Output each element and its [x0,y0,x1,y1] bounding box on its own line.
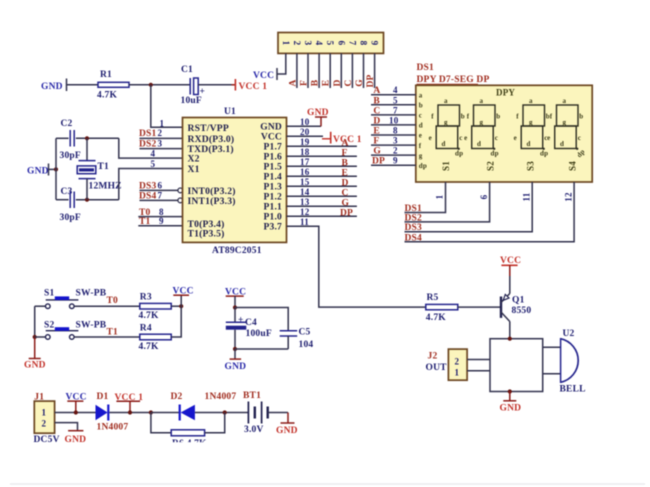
svg-text:4: 4 [314,41,324,46]
svg-text:GND: GND [260,123,282,133]
connector J1 DC5V [34,393,60,445]
svg-text:1: 1 [455,368,460,378]
svg-text:DS2: DS2 [405,213,423,223]
svg-text:F: F [300,80,310,86]
svg-text:d: d [477,140,481,148]
svg-text:2: 2 [393,146,398,156]
display bus row F pin3 [371,136,416,147]
crystal T1 12MHZ [77,138,122,199]
wire J1 pin1 [55,412,96,414]
svg-text:g: g [444,119,448,127]
wire S2 to R4 [74,336,140,338]
svg-text:1N4007: 1N4007 [205,392,237,402]
resistor R3 [139,293,172,322]
wire J2 pin2 to loop [467,359,490,361]
wire D1 to VCC1 node [109,412,150,414]
wire header pin3 net F [300,53,310,88]
svg-text:T1: T1 [98,162,110,172]
svg-text:U1: U1 [224,107,236,117]
svg-text:c: c [419,112,422,120]
wire J2 pin1 to loop [467,370,490,372]
svg-text:DP: DP [340,208,353,218]
svg-text:T1: T1 [107,327,119,337]
svg-text:D: D [333,79,343,86]
wire bell loop rectangle [490,339,543,392]
faint scan artifact at bottom [10,483,645,485]
svg-text:9: 9 [393,156,398,166]
power flag VCC1 (red, top) [232,79,268,92]
power flag VCC (J1) [66,393,87,413]
svg-text:d: d [527,140,531,148]
svg-text:1: 1 [160,118,165,128]
svg-text:VCC: VCC [173,287,194,297]
wire header pin4 net B [311,53,321,88]
ground GND (C4, blue) [225,349,247,372]
node crystal gnd tap [54,167,58,171]
node DS1 net (pin 2) [139,128,183,139]
display bus row G pin2 [371,146,416,157]
svg-text:100uF: 100uF [246,329,272,339]
svg-text:e: e [547,134,550,142]
svg-text:C1: C1 [181,65,193,75]
pin 10 GND [287,108,329,127]
wire header pin8 net G [355,53,365,88]
svg-text:e: e [429,134,432,142]
svg-text:14: 14 [300,187,310,197]
power flag VCC (red, Q1) [500,256,521,276]
svg-text:dp: dp [419,162,427,170]
svg-text:GND: GND [225,362,247,372]
svg-text:G: G [355,79,365,87]
svg-text:4: 4 [393,85,398,95]
svg-text:X1: X1 [188,164,200,175]
svg-text:DPY: DPY [496,88,515,98]
svg-text:9: 9 [370,41,380,46]
ground GND (switches, red) [24,338,46,371]
svg-text:3: 3 [303,41,313,46]
svg-text:DS4: DS4 [405,233,423,243]
svg-text:20: 20 [300,127,310,137]
svg-text:3.0V: 3.0V [244,425,264,435]
power flag VCC1 (bottom, red) [115,393,144,413]
svg-text:3: 3 [158,138,163,148]
display bus row E pin8 [371,126,416,137]
svg-text:Q1: Q1 [512,296,525,306]
svg-text:15: 15 [300,177,310,187]
svg-text:GND: GND [41,82,63,92]
svg-text:1: 1 [435,194,445,199]
wire header pin6 net D [333,53,343,88]
svg-text:D: D [342,178,349,188]
svg-text:a: a [444,97,448,105]
svg-text:SW-PB: SW-PB [76,321,107,331]
svg-text:E: E [322,80,332,87]
wire GND to R1 [67,84,99,86]
svg-text:GND: GND [500,404,522,414]
connector header (9 pin) [278,33,384,54]
power flag VCC (C4) [225,287,246,307]
svg-text:2: 2 [42,418,47,428]
display segment digit 1 [429,97,465,157]
svg-text:U2: U2 [563,329,575,339]
svg-text:S2: S2 [44,321,54,331]
power flag VCC (blue, header) [253,68,277,81]
switch S1 SW-PB [35,289,107,309]
wire header pin2 net A [288,53,298,88]
wire header pin5 net E [322,53,332,88]
capacitor C2 [56,119,119,161]
svg-text:S4: S4 [568,161,578,171]
svg-text:A: A [342,138,349,148]
svg-text:dp: dp [491,149,499,157]
battery BT1 3.0V [243,391,268,435]
svg-text:12: 12 [300,207,310,217]
svg-text:5: 5 [393,95,398,105]
svg-text:8: 8 [359,41,369,46]
svg-text:5: 5 [325,41,335,46]
svg-text:7: 7 [393,105,398,115]
pin 12 net DP [287,207,357,219]
wire header pin9 net DP [366,53,376,88]
node crystal top [85,136,89,140]
svg-text:104: 104 [299,340,314,350]
wire R4 to VCC node [171,306,181,337]
svg-text:5: 5 [151,159,156,169]
ground GND (BT1, red) [276,413,298,436]
svg-text:3: 3 [393,136,398,146]
svg-text:c: c [578,134,581,142]
svg-text:R5: R5 [427,293,439,303]
svg-text:GND: GND [276,426,298,436]
wire to D2 [151,412,180,414]
svg-text:SW-PB: SW-PB [76,289,107,299]
svg-text:c: c [459,134,462,142]
svg-text:12MHZ: 12MHZ [89,182,122,192]
svg-text:30pF: 30pF [60,213,81,223]
node D2 left junction [149,410,153,414]
svg-text:DS1: DS1 [417,63,435,73]
svg-text:a: a [419,91,423,99]
svg-text:13: 13 [300,197,310,207]
svg-text:S3: S3 [526,161,536,171]
pin 19 net A [287,137,357,149]
diode D1 1N4007 [96,392,129,433]
svg-text:G: G [342,198,350,208]
svg-text:d: d [442,140,446,148]
svg-text:e: e [419,132,422,140]
pin 14 net C [287,187,357,199]
wire BT1 to gnd [268,412,288,414]
wire switch left rail [34,306,36,338]
display select stub S2 / net DS2 [405,182,490,223]
pin 18 net F [287,147,357,159]
transistor Q1 8550 (PNP) [501,276,531,339]
svg-text:RST/VPP: RST/VPP [188,123,229,134]
node C4 top junction [233,305,237,309]
svg-text:d: d [560,140,564,148]
svg-text:P3.7: P3.7 [264,223,283,233]
svg-text:8: 8 [393,126,398,136]
svg-text:d: d [419,122,423,130]
svg-text:VCC: VCC [261,133,282,143]
svg-text:J2: J2 [428,352,438,362]
svg-text:e: e [514,134,517,142]
resistor R1 [97,70,129,101]
display bus row D pin10 [371,115,416,126]
svg-text:4.7K: 4.7K [139,311,159,321]
node R3/R4/VCC junction [179,304,183,308]
svg-text:1: 1 [281,41,291,46]
svg-text:X2: X2 [188,154,200,165]
node bell gnd junction [508,389,512,393]
wire C4 top rail [235,308,288,331]
svg-text:b: b [496,113,500,121]
svg-text:B: B [342,158,349,168]
svg-text:T0: T0 [107,296,119,306]
svg-text:C5: C5 [299,328,311,338]
svg-text:b: b [461,113,465,121]
svg-text:10: 10 [300,117,310,127]
node J1 VCC junction [74,410,78,414]
wire D2 to BT1 [195,412,249,414]
node T1 net (pin 9) [138,216,182,227]
display select stub S1 / net DS1 [405,182,446,214]
pin 16 net E [287,167,357,179]
wire S1 to R3 [74,305,140,307]
svg-text:D2: D2 [171,392,183,402]
node junction R1/C1/RST [149,83,153,87]
svg-text:g: g [529,119,533,127]
pin 15 net D [287,177,357,189]
svg-text:30pF: 30pF [60,151,81,161]
node DS3 net (pin 6) [139,181,183,193]
svg-text:T1(P3.5): T1(P3.5) [188,229,225,240]
svg-text:AT89C2051: AT89C2051 [212,246,262,256]
svg-text:R4: R4 [140,323,152,333]
svg-text:DS1: DS1 [405,204,423,214]
svg-text:P1.4: P1.4 [264,173,283,183]
svg-text:INT1(P3.3): INT1(P3.3) [188,196,236,207]
svg-text:OUT: OUT [426,363,448,373]
svg-text:10: 10 [389,115,399,125]
svg-text:1N4007: 1N4007 [97,423,129,433]
svg-text:VCC: VCC [253,71,274,81]
svg-text:R1: R1 [100,70,112,80]
pin 13 net G [287,197,357,209]
node C4 bottom junction [233,347,237,351]
display segment digit 2 [464,97,500,157]
node S2 gnd junction [33,335,37,339]
node Q1 collector junction [508,337,512,341]
svg-text:D1: D1 [97,392,109,402]
svg-text:C4: C4 [245,318,257,328]
svg-text:b: b [579,113,583,121]
svg-text:DS3: DS3 [405,223,423,233]
svg-text:11: 11 [300,217,309,227]
display segment digit 4 [547,97,586,159]
svg-text:VCC 1: VCC 1 [239,82,268,92]
svg-text:g: g [563,119,567,127]
svg-text:E: E [342,168,349,178]
wire node to MCU pin1 [151,85,183,128]
capacitor C3 [56,187,119,223]
svg-text:g: g [480,119,484,127]
svg-text:8550: 8550 [512,306,532,316]
svg-text:e: e [464,134,467,142]
svg-text:GND: GND [24,361,46,371]
svg-text:DC5V: DC5V [34,435,60,445]
svg-text:P1.7: P1.7 [264,143,283,153]
wire header pin1 to VCC flag [277,53,286,74]
display DPY box [416,85,592,182]
svg-text:C: C [344,79,354,86]
capacitor C1 [181,65,206,106]
svg-text:9: 9 [159,216,164,226]
pin 17 net B [287,157,357,169]
svg-text:11: 11 [522,192,532,201]
svg-text:GND: GND [65,435,87,445]
svg-text:P1.1: P1.1 [264,203,283,213]
pin 20 VCC1 flag [287,127,362,145]
svg-text:6: 6 [479,194,489,199]
svg-text:S1: S1 [44,289,54,299]
svg-text:S2: S2 [486,161,496,171]
svg-text:2: 2 [455,357,460,367]
svg-text:P1.0: P1.0 [264,213,283,223]
resistor R5 [426,293,458,323]
wire R5 to Q1 base [458,306,500,308]
node T0 net (pin 8) [138,207,182,218]
display left pin names a-dp [419,91,427,169]
display bus row C pin7 [371,105,416,116]
svg-text:P1.5: P1.5 [264,163,283,173]
svg-text:4.7K: 4.7K [97,91,117,101]
svg-text:7: 7 [158,191,163,201]
display bus row DP pin9 [371,156,416,167]
svg-text:7: 7 [347,41,357,46]
ground GND (bell, red) [500,392,522,414]
svg-text:17: 17 [300,157,310,167]
resistor bypass (clipped label) [151,413,249,453]
svg-text:dp: dp [540,149,548,157]
node crystal bottom [85,198,89,202]
wire R1 to C1 [129,84,190,86]
svg-text:a: a [480,97,484,105]
svg-text:12: 12 [564,192,574,202]
svg-text:GND: GND [307,108,329,118]
svg-text:+: + [238,316,244,326]
display select stub S4 / net DS4 [405,182,575,243]
svg-text:19: 19 [300,137,310,147]
wire J1 pin2 to gnd [55,423,78,431]
svg-text:6: 6 [336,41,346,46]
svg-text:C: C [342,188,349,198]
ground flag GND (top-left, blue) [41,79,67,93]
svg-text:4: 4 [151,148,156,158]
svg-text:P1.2: P1.2 [264,193,283,203]
svg-text:DS1: DS1 [139,129,157,139]
capacitor C4 100uF [226,308,272,350]
svg-text:2: 2 [158,128,163,138]
svg-text:GND: GND [27,167,49,177]
svg-text:16: 16 [300,167,310,177]
svg-text:c: c [495,134,498,142]
wire header pin7 net C [344,53,354,88]
svg-text:DPY D7-SEG DP: DPY D7-SEG DP [417,75,490,85]
svg-text:P1.6: P1.6 [264,153,283,163]
svg-text:6: 6 [158,181,163,191]
svg-text:B: B [311,79,321,86]
svg-text:BT1: BT1 [243,391,261,401]
node D2 right junction [223,410,227,414]
node DS2 net (pin 3) [139,138,183,149]
svg-text:P1.3: P1.3 [264,183,283,193]
node DS4 net (pin 7) [139,191,183,203]
svg-text:R3: R3 [140,293,152,303]
svg-text:g: g [419,152,423,160]
pin 11 wire to R5 [287,217,426,307]
ground GND (J1, red) [65,431,87,445]
wire C5 bottom rail [235,348,288,350]
wire crystal to X1 [119,169,183,200]
node VCC1 junction [128,410,132,414]
display segment digit 3 [514,97,550,157]
svg-text:A: A [288,79,298,86]
resistor R4 [139,323,172,352]
svg-text:J1: J1 [34,393,44,403]
svg-text:b: b [419,102,423,110]
svg-text:4.7K: 4.7K [139,342,159,352]
svg-text:a: a [529,97,533,105]
svg-text:1: 1 [42,407,47,417]
svg-text:S1: S1 [441,161,451,171]
display digit select labels S1-S4 [441,161,578,171]
wire C1 to VCC1 [198,84,231,86]
svg-text:a: a [563,97,567,105]
svg-text:2: 2 [292,41,302,46]
svg-text:dp: dp [455,149,463,157]
svg-text:C2: C2 [61,119,73,129]
diode D2 1N4007 (reversed) [171,392,237,421]
display labels DS1 / DPY D7-SEG DP [417,63,490,85]
display bus row A pin4 [371,85,416,96]
connector J2 OUT [426,349,468,380]
display select stub S3 / net DS3 [405,182,533,233]
svg-text:BELL: BELL [560,385,586,395]
display bus row B pin5 [371,95,416,106]
capacitor C5 104 [280,328,314,350]
bell U2 [543,329,586,395]
ground flag GND (crystal, blue) [27,164,56,177]
svg-text:10uF: 10uF [181,96,202,106]
switch S2 SW-PB [35,321,107,340]
svg-text:F: F [342,148,348,158]
wire crystal to X2 [119,138,183,158]
svg-text:4.7K: 4.7K [426,313,446,323]
wire left rail [55,138,57,199]
wire R3 to VCC node [171,305,181,307]
power flag VCC (switches) [173,287,194,307]
svg-text:18: 18 [300,147,310,157]
